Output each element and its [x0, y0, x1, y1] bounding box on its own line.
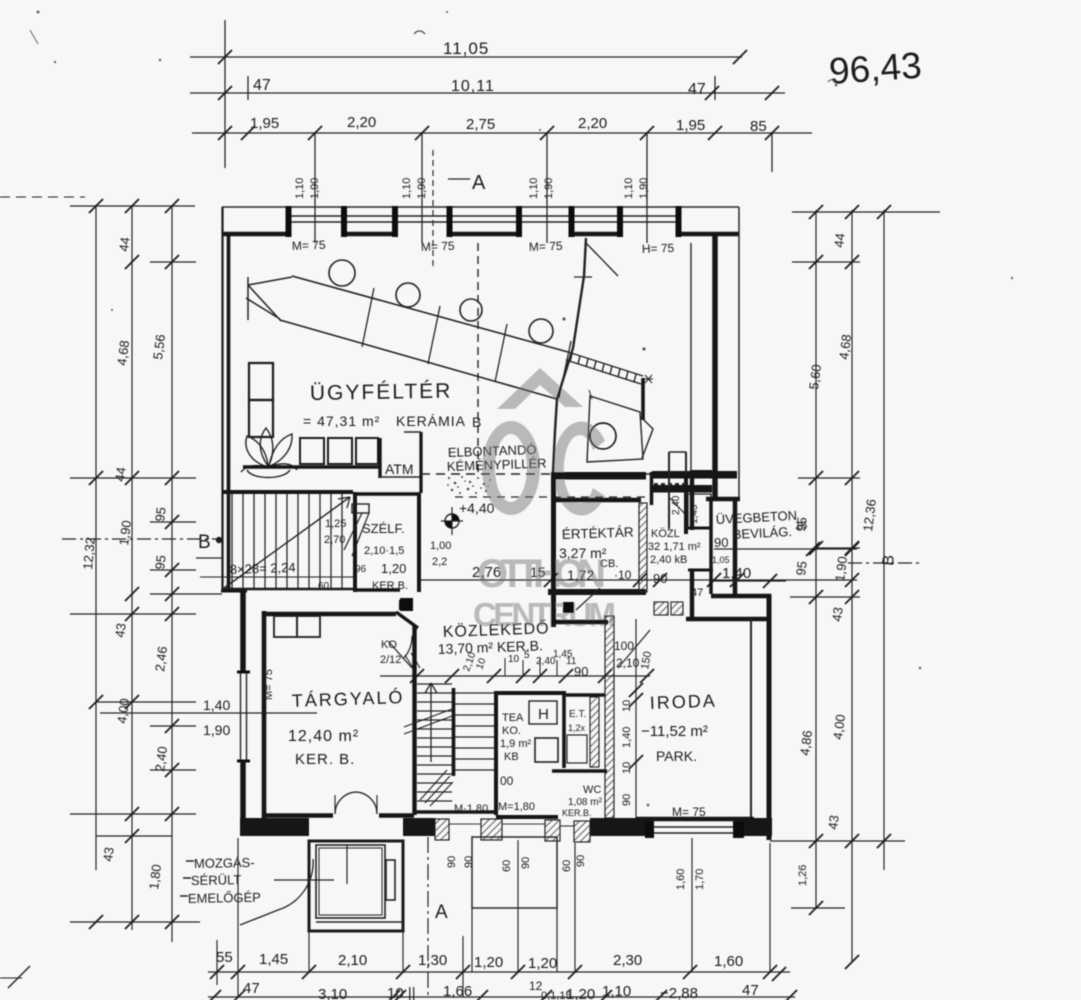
- svg-text:90: 90: [575, 855, 587, 867]
- tea labels: [500, 712, 532, 763]
- svg-text:11,05: 11,05: [443, 39, 489, 58]
- svg-text:SÉRÜLT: SÉRÜLT: [191, 872, 242, 888]
- svg-text:47: 47: [691, 587, 703, 599]
- svg-text:1,90: 1,90: [638, 178, 650, 199]
- stair bottom wall: [414, 810, 498, 814]
- svg-text:·10: ·10: [614, 568, 632, 582]
- plant symbol: [241, 428, 297, 478]
- left chain slant ticks: [89, 199, 103, 213]
- svg-text:1,90: 1,90: [416, 178, 428, 199]
- svg-text:H= 75: H= 75: [642, 241, 675, 256]
- svg-text:00: 00: [500, 774, 514, 788]
- jog to outer right wall: [711, 594, 771, 599]
- rotated 90 labels near lift: [446, 855, 809, 890]
- central stair treads flight 1: [417, 684, 452, 801]
- stool circle 3: [460, 299, 482, 321]
- svg-text:1,30: 1,30: [418, 952, 447, 969]
- left chain vertical 3: [171, 206, 173, 942]
- left wall below window: [240, 761, 246, 820]
- svg-text:5,56: 5,56: [150, 333, 168, 360]
- demolition dashed line upper: [421, 473, 736, 475]
- window 1 glazing: [287, 216, 680, 222]
- svg-text:43: 43: [825, 814, 842, 830]
- uveg top wall: [690, 470, 712, 474]
- svg-text:ÜGYFÉLTÉR: ÜGYFÉLTÉR: [310, 380, 453, 405]
- corridor bottom wall: [496, 815, 558, 819]
- top facade outer line: [222, 206, 739, 208]
- bottom window (iroda): [654, 826, 733, 828]
- svg-text:90: 90: [463, 856, 475, 868]
- counter division ticks: [362, 288, 571, 398]
- H box: [529, 701, 557, 724]
- seat box 1: [300, 438, 324, 464]
- right chain vertical 2: [851, 210, 853, 962]
- svg-text:4,68: 4,68: [836, 333, 854, 360]
- targyalo top wall: [262, 612, 396, 617]
- iroda inner dim line: [635, 619, 637, 818]
- bottom wall solid segments: [240, 818, 772, 836]
- svg-text:M= 75: M= 75: [292, 238, 326, 253]
- svg-text:47: 47: [243, 980, 260, 997]
- left edge tick bottom: [8, 966, 30, 988]
- svg-text:47: 47: [688, 81, 706, 98]
- small diagonal brace at window 3: [586, 243, 618, 276]
- svg-text:IRODA: IRODA: [649, 691, 717, 713]
- counter lower diagonal: [280, 320, 557, 399]
- uveg left wall thick upper: [690, 470, 694, 530]
- svg-text:1,60: 1,60: [714, 953, 743, 970]
- level marker symbol: [441, 507, 463, 535]
- svg-text:A: A: [472, 172, 486, 194]
- svg-text:55: 55: [216, 949, 233, 966]
- iroda top wall: [686, 617, 770, 621]
- targyalo left inner wall: [262, 611, 267, 818]
- svg-text:1,20: 1,20: [528, 955, 557, 972]
- chimney speckle patch: [447, 476, 491, 494]
- svg-text:1,40: 1,40: [203, 697, 230, 713]
- ertektar labels: [559, 524, 667, 586]
- stair dim line: [200, 576, 353, 578]
- targyalo top right diagonal: [396, 612, 418, 628]
- svg-text:100: 100: [614, 639, 634, 653]
- svg-text:44: 44: [831, 232, 848, 248]
- counter left end miter: [246, 277, 292, 321]
- section marker A top: [448, 178, 470, 180]
- party wall hatched: [605, 616, 614, 818]
- left wall band: [221, 207, 223, 592]
- svg-text:96,43: 96,43: [828, 45, 923, 92]
- small KO label and arrows left: [399, 600, 409, 610]
- pivot square near ertektar exit: [563, 602, 574, 613]
- uveg inner wall: [709, 498, 713, 594]
- lift inner box: [316, 845, 385, 918]
- svg-text:15: 15: [530, 564, 546, 580]
- stair diagonal with arrow: [224, 497, 350, 588]
- counter upper diagonal: [292, 276, 568, 352]
- svg-text:B: B: [198, 532, 211, 553]
- svg-text:KER.B.: KER.B.: [562, 808, 592, 818]
- svg-text:1,90: 1,90: [309, 178, 321, 199]
- corridor small dims: [461, 649, 576, 673]
- lift door arc: [240, 859, 313, 925]
- seat box 3: [356, 438, 378, 464]
- svg-text:60: 60: [501, 860, 513, 872]
- svg-text:95: 95: [793, 516, 810, 532]
- bottom extension lines: [217, 838, 770, 997]
- wall cabinet double box on left wall: [249, 363, 273, 400]
- svg-text:1,10: 1,10: [294, 178, 306, 199]
- svg-text:96: 96: [355, 564, 367, 575]
- iroda east inner wall line: [750, 619, 752, 820]
- svg-text:2,40: 2,40: [671, 495, 682, 515]
- targyalo bottom wall with door opening: [262, 813, 333, 818]
- sink square: [535, 738, 558, 762]
- arrow fan lower: [420, 770, 453, 806]
- svg-text:43: 43: [829, 606, 846, 622]
- top facade inner thick wall segments: [222, 232, 739, 237]
- iroda rotated dims: [621, 700, 633, 806]
- watermark letter O: [482, 421, 540, 515]
- svg-text:10: 10: [621, 700, 633, 712]
- svg-text:= 47,31 m²: = 47,31 m²: [303, 413, 380, 429]
- svg-text:12,32: 12,32: [80, 537, 98, 571]
- svg-text:44: 44: [112, 466, 129, 482]
- tilted desk box with stool: [587, 396, 643, 462]
- stair shaft right wall: [494, 691, 498, 815]
- svg-text:1,10: 1,10: [528, 178, 540, 199]
- svg-text:1,40: 1,40: [722, 565, 751, 582]
- central stair treads flight 2: [455, 693, 494, 770]
- section line A bottom: [427, 837, 429, 999]
- svg-text:90: 90: [653, 571, 667, 586]
- right chain vertical 3: [883, 210, 885, 870]
- svg-text:2,40 kB: 2,40 kB: [650, 554, 687, 566]
- left chain vertical 1: [95, 206, 97, 870]
- extension lines: [224, 20, 226, 168]
- svg-text:1,26: 1,26: [797, 865, 809, 886]
- left window glazing: [240, 672, 242, 761]
- furniture boxes: [274, 616, 297, 637]
- funnel pointer lines: [641, 417, 653, 458]
- svg-text:1,90: 1,90: [203, 722, 230, 738]
- right chain rotated labels: [793, 232, 879, 830]
- asterisk mark: [644, 375, 653, 383]
- svg-text:2,70: 2,70: [324, 534, 345, 546]
- svg-text:2,10·1,5: 2,10·1,5: [364, 545, 404, 557]
- svg-text:2,46: 2,46: [152, 645, 170, 672]
- svg-text:1,20: 1,20: [474, 954, 503, 971]
- svg-text:4,86: 4,86: [797, 729, 815, 756]
- dim line 90: [714, 548, 857, 550]
- svg-text:1,72: 1,72: [567, 567, 594, 583]
- svg-text:SZÉLF.: SZÉLF.: [362, 521, 405, 536]
- stool circle 1: [329, 260, 355, 286]
- bottom labels row 1: [216, 949, 743, 972]
- svg-text:1,05: 1,05: [712, 555, 730, 565]
- left wall lower segment with window: [240, 591, 246, 673]
- svg-text:44: 44: [116, 236, 133, 252]
- WATERMARK: [473, 368, 618, 633]
- ertektar right hatched wall: [639, 503, 647, 592]
- dim line 11,05: [190, 56, 742, 58]
- svg-text:PARK.: PARK.: [656, 748, 697, 764]
- svg-text:95: 95: [152, 506, 169, 522]
- svg-text:2,20: 2,20: [347, 114, 376, 131]
- stool circle 2: [396, 283, 420, 307]
- szelfogo bottom wall: [353, 588, 400, 591]
- vertical stub below hatched counter: [641, 378, 645, 420]
- svg-text:1,2x: 1,2x: [568, 723, 586, 733]
- uveg cross wall 2: [688, 569, 713, 572]
- svg-text:1,90: 1,90: [116, 519, 134, 546]
- svg-text:E.T.: E.T.: [569, 709, 586, 720]
- left dashed margin line: [0, 196, 85, 198]
- seat box 2: [328, 438, 352, 464]
- svg-text:WC: WC: [583, 784, 601, 796]
- left staircase treads: [232, 494, 342, 589]
- svg-text:95: 95: [152, 554, 169, 570]
- svg-text:2/12: 2/12: [380, 654, 401, 666]
- svg-text:4,00: 4,00: [830, 713, 848, 740]
- svg-text:12,40 m²: 12,40 m²: [288, 728, 359, 745]
- svg-text:1,70: 1,70: [694, 869, 706, 890]
- uveg cross wall 1: [688, 527, 711, 530]
- svg-text:47: 47: [742, 982, 759, 999]
- svg-text:1,90: 1,90: [543, 178, 555, 199]
- svg-text:M= 75: M= 75: [529, 239, 563, 254]
- svg-text:2,20: 2,20: [578, 115, 607, 132]
- kozl shaft swing: [670, 498, 685, 514]
- corridor top wall left part: [551, 620, 608, 624]
- svg-text:−2,88: −2,88: [660, 985, 698, 1000]
- kozl shaft vertical lines: [668, 452, 670, 529]
- svg-text:H: H: [538, 706, 549, 723]
- terrace outline below wc: [472, 837, 557, 908]
- svg-text:1,66: 1,66: [443, 983, 472, 1000]
- svg-text:43: 43: [112, 622, 129, 638]
- svg-text:1,95: 1,95: [250, 115, 279, 132]
- svg-text:10: 10: [508, 654, 520, 665]
- bent partition wall right of dashed line: [553, 238, 586, 472]
- tea room top wall: [494, 691, 566, 695]
- svg-text:−11,52 m²: −11,52 m²: [641, 723, 708, 740]
- svg-text:KO.: KO.: [502, 725, 521, 737]
- iroda door swing: [618, 630, 650, 668]
- svg-text:1,00: 1,00: [430, 540, 451, 552]
- szelfogo door swing diagonals: [344, 513, 369, 556]
- stool circle 5: [590, 423, 616, 449]
- svg-text:MOZGÁS-: MOZGÁS-: [194, 855, 255, 871]
- svg-text:ATM: ATM: [385, 461, 414, 477]
- svg-text:2,10: 2,10: [338, 952, 367, 969]
- kozl dashed top: [654, 483, 686, 485]
- svg-text:1,80: 1,80: [146, 863, 164, 890]
- svg-text:2,76: 2,76: [472, 564, 501, 581]
- stair cut diagonals: [404, 709, 452, 734]
- lift outer box: [309, 841, 403, 931]
- right wall thick: [712, 232, 718, 498]
- window dim line 1,40/1,90 left: [100, 712, 317, 714]
- door swing from pivot: [576, 588, 600, 610]
- demolition dashed line lower: [455, 496, 645, 498]
- wall ugyfelter bottom over stairs: [222, 490, 353, 494]
- svg-text:M·1,80: M·1,80: [454, 803, 488, 815]
- ATM niche: [378, 438, 381, 478]
- svg-text:B: B: [472, 414, 481, 430]
- right outer wall lower: [767, 594, 772, 840]
- svg-text:TEA: TEA: [502, 712, 524, 724]
- bottom dim line 2: [208, 996, 795, 998]
- door pivot square black: [400, 598, 413, 611]
- szelfogo top wall: [353, 492, 421, 495]
- watermark roof chevron: [497, 368, 583, 409]
- scan specks: [37, 11, 40, 14]
- dim line 2,76/15 row: [421, 579, 857, 581]
- svg-text:1,45: 1,45: [259, 951, 288, 968]
- svg-text:1,25: 1,25: [325, 518, 346, 530]
- hatched wall right of ET: [590, 697, 599, 767]
- watermark letter C: [552, 421, 605, 515]
- svg-text:KB: KB: [504, 751, 519, 763]
- right chain slant ticks: [809, 205, 823, 219]
- bottom wall hatched door jambs: [435, 819, 590, 842]
- svg-text:47: 47: [253, 77, 271, 94]
- svg-text:32 1,71 m²: 32 1,71 m²: [648, 541, 701, 553]
- left chain horizontal ticks: [70, 205, 195, 207]
- svg-text:60: 60: [318, 581, 330, 592]
- window head labels: [292, 238, 675, 256]
- svg-text:1,9 m²: 1,9 m²: [500, 738, 532, 750]
- szelfogo left wall: [353, 492, 357, 592]
- svg-text:4,68: 4,68: [114, 339, 132, 366]
- lift handle: [386, 860, 395, 900]
- ET wc cell: [566, 693, 605, 696]
- small cabinet rects right of shaft: [688, 494, 711, 528]
- thick wall band above ertektar: [551, 472, 646, 480]
- svg-text:90: 90: [446, 856, 458, 868]
- kozl labels: [648, 528, 701, 566]
- svg-text:1,90: 1,90: [832, 555, 850, 582]
- svg-text:5: 5: [524, 650, 530, 661]
- tick on bent wall: [574, 276, 592, 278]
- svg-text:10,11: 10,11: [451, 78, 495, 95]
- svg-text:1,95: 1,95: [676, 117, 705, 134]
- dashed partition centerline: [477, 243, 479, 474]
- svg-text:90: 90: [714, 535, 728, 550]
- svg-text:1,08 m²: 1,08 m²: [568, 797, 603, 808]
- svg-text:90: 90: [520, 857, 532, 869]
- szelfogo labels: [318, 518, 408, 592]
- stool circle 4: [529, 319, 553, 343]
- tea room right wall: [562, 693, 566, 768]
- double door arcs: [335, 792, 377, 814]
- dim line 1,40: [712, 580, 786, 582]
- right chain vertical 1: [815, 210, 817, 908]
- stair bottom edge: [222, 588, 353, 591]
- svg-text:8×28= 2,24: 8×28= 2,24: [230, 560, 296, 577]
- uveg left wall thick lower: [690, 570, 694, 618]
- svg-text:+4,40: +4,40: [459, 500, 495, 516]
- stair up arrow: [430, 683, 432, 762]
- lift labels: [188, 855, 261, 906]
- svg-text:ÉRTÉKTÁR: ÉRTÉKTÁR: [562, 524, 634, 542]
- bench shelf under plant: [243, 465, 380, 468]
- bottom door thresholds: [449, 824, 574, 826]
- szelfogo inner door rect: [352, 504, 369, 513]
- svg-text:BEVILÁG.: BEVILÁG.: [732, 524, 792, 542]
- ertektar left wall: [551, 476, 556, 627]
- svg-text:2,2: 2,2: [432, 556, 447, 568]
- svg-text:2,40: 2,40: [152, 745, 170, 772]
- svg-text:2,30: 2,30: [613, 952, 642, 969]
- WC room top wall: [552, 769, 607, 773]
- svg-text:KER. B.: KER. B.: [295, 751, 355, 768]
- svg-text:95: 95: [793, 560, 810, 576]
- ertektar bottom wall: [548, 589, 646, 595]
- kozl west wall stub: [650, 472, 654, 505]
- svg-text:EMELŐGÉP: EMELŐGÉP: [188, 890, 261, 906]
- stair shaft left wall: [412, 626, 416, 815]
- svg-text:1,60: 1,60: [675, 869, 687, 890]
- svg-text:1,20: 1,20: [566, 986, 595, 1000]
- svg-text:B: B: [880, 554, 898, 566]
- svg-text:A: A: [435, 902, 448, 923]
- dim line 1,95/2,20/2,75/2,20/1,95/85: [192, 132, 812, 134]
- left wall step at stair bottom: [221, 590, 247, 593]
- svg-text:43: 43: [100, 846, 117, 862]
- corridor extension stubs: [505, 390, 592, 676]
- lift centre rod: [346, 845, 348, 884]
- iroda bottom wall: [636, 817, 754, 822]
- ertektar top inner wall: [556, 498, 641, 502]
- svg-text:M= 75: M= 75: [421, 239, 455, 254]
- svg-text:1,10: 1,10: [401, 178, 413, 199]
- svg-text:KÖZL: KÖZL: [651, 528, 680, 540]
- svg-text:1,20: 1,20: [381, 561, 406, 576]
- svg-text:4,00: 4,00: [114, 697, 132, 724]
- bottom dim line 1: [208, 971, 790, 973]
- left chain rotated labels: [80, 236, 170, 890]
- rotated window-axis dims 1,10/1,90 pairs: [294, 178, 650, 199]
- svg-text:KER.B.: KER.B.: [372, 580, 408, 592]
- svg-text:1,10: 1,10: [623, 178, 635, 199]
- svg-text:90: 90: [621, 794, 633, 806]
- corridor dim line: [380, 675, 650, 677]
- svg-text:KERÁMIA: KERÁMIA: [396, 413, 466, 429]
- svg-text:2,75: 2,75: [466, 116, 495, 133]
- szelfogo right wall: [417, 493, 421, 592]
- svg-text:M=1,80: M=1,80: [498, 801, 535, 813]
- right inner partition line: [690, 243, 692, 470]
- bottom labels row 2: [243, 979, 759, 1000]
- svg-text:10: 10: [621, 762, 633, 774]
- right facade outer line: [738, 207, 740, 500]
- central stair mid wall: [452, 688, 456, 776]
- iroda door jambs: [654, 602, 668, 615]
- left chain vertical 2: [131, 206, 133, 930]
- svg-text:3,10: 3,10: [318, 986, 347, 1000]
- hatched counter wall segment: [566, 352, 643, 384]
- svg-text:85: 85: [750, 118, 767, 135]
- right wall jog at skylight: [706, 497, 740, 502]
- svg-text:1,40: 1,40: [621, 727, 633, 748]
- B section dash-dot right: [848, 562, 922, 564]
- svg-text:1,10: 1,10: [602, 983, 631, 1000]
- right chain horizontal ticks: [792, 211, 940, 213]
- lift bottom double lines: [316, 921, 403, 923]
- svg-text:10 ||: 10 ||: [387, 985, 416, 1000]
- dim line 47/10,11/47: [190, 92, 785, 94]
